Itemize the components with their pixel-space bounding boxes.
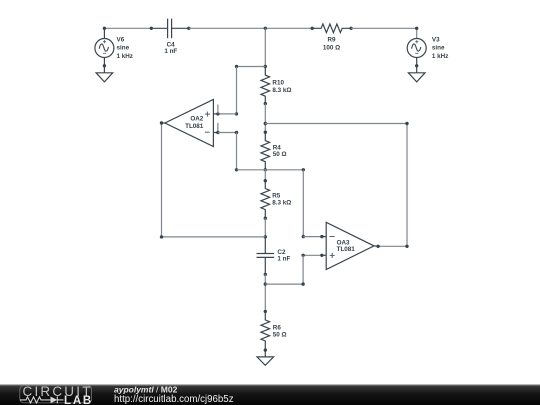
ground (V3): [408, 66, 425, 82]
wire top rail left (V6 to C4): [104, 27, 151, 29]
node C2 bottom terminal: [264, 273, 267, 276]
node R6 bottom terminal: [264, 348, 267, 351]
wire branch R10 top to left: [237, 66, 266, 68]
logo CIRCUIT text: [23, 384, 93, 399]
node C4 right terminal: [187, 27, 190, 30]
svg-text:LAB: LAB: [64, 395, 93, 405]
label C4 value: [164, 42, 177, 56]
wire top rail middle (C4 to R9): [189, 27, 312, 29]
wire main column R10 to R4: [264, 104, 266, 133]
wire OA3 plus pin to corner: [303, 254, 322, 256]
svg-text:OA2TL081: OA2TL081: [185, 116, 204, 130]
logo LAB text: [64, 395, 93, 405]
wire down to OA3 minus level: [302, 170, 304, 237]
logo diode: [51, 397, 64, 404]
node left corner R4 bottom: [235, 168, 238, 171]
node C2 top junction: [264, 235, 267, 238]
node OA3 output pin: [376, 245, 379, 248]
node C4 left terminal: [150, 27, 153, 30]
footer url text: [114, 394, 234, 405]
svg-text:R450 Ω: R450 Ω: [273, 144, 287, 158]
label R6 value: [273, 325, 287, 339]
svg-text:R9100 Ω: R9100 Ω: [323, 37, 340, 52]
wire to OA3 minus pin: [303, 236, 322, 238]
node feedback junction: [264, 122, 267, 125]
svg-text:OA3TL081: OA3TL081: [337, 240, 356, 254]
node OA2 plus corner: [235, 112, 238, 115]
svg-text:R58.3 kΩ: R58.3 kΩ: [272, 192, 291, 206]
footer title text: [114, 385, 178, 395]
wire top rail right (R9 to V3): [351, 28, 417, 38]
wire R4 bottom horizontal: [237, 169, 304, 171]
wire main column R5 to C2: [264, 218, 266, 237]
label OA2: [185, 116, 204, 130]
svg-text:V3sine1 kHz: V3sine1 kHz: [432, 37, 448, 60]
op-amp OA3: [322, 222, 378, 269]
wire stub above OA2 minus pin: [217, 123, 219, 133]
node R4 bottom junction: [264, 168, 267, 171]
svg-text:http://circuitlab.com/cj96b5z: http://circuitlab.com/cj96b5z: [114, 394, 234, 405]
logo frame: [20, 386, 92, 403]
label C2 value: [277, 249, 290, 263]
node R10 bottom terminal: [264, 102, 267, 105]
ground (R6): [257, 350, 274, 365]
capacitor C4: [151, 19, 189, 39]
node OA2 plus pin: [216, 112, 219, 115]
wire main column top segment: [264, 28, 266, 66]
node R5 bottom terminal: [264, 217, 267, 220]
node R9 left terminal: [311, 27, 314, 30]
label R5 value: [272, 192, 291, 206]
node OA3 plus corner: [301, 254, 304, 257]
wire OA3 plus down: [265, 255, 303, 284]
wire to OA2 plus pin: [218, 113, 237, 115]
node V3 bottom junction: [415, 64, 418, 67]
resistor R5: [261, 181, 270, 219]
node OA3 minus corner: [302, 235, 305, 238]
node OA3 plus bottom corner: [301, 282, 304, 285]
node OA3 plus pin: [320, 254, 323, 257]
wire OA2 output down: [162, 123, 266, 237]
svg-text:aypolymtl / M02: aypolymtl / M02: [114, 385, 178, 395]
label R9 value: [323, 37, 340, 52]
resistor R4: [261, 132, 270, 170]
node feedback bottom corner: [405, 245, 408, 248]
wire stub above OA2 plus pin: [217, 105, 219, 114]
resistor R10: [261, 67, 270, 104]
label R4 value: [273, 144, 287, 158]
label V3 value: [432, 37, 448, 60]
node right corner R4 bottom: [302, 168, 305, 171]
wire down to OA2 plus input: [236, 67, 238, 114]
label V6 value: [117, 37, 133, 60]
node R9 right terminal: [349, 27, 352, 30]
wire main column C2 to R6: [264, 274, 266, 311]
node V6 top junction: [103, 27, 106, 30]
wire OA2 minus to corner: [218, 132, 237, 134]
logo resistor zigzag: [20, 397, 51, 403]
label R10 value: [272, 79, 291, 94]
footer bar: [0, 385, 540, 405]
node R4 top terminal: [264, 131, 267, 134]
svg-text:C41 nF: C41 nF: [164, 42, 177, 56]
voltage source V3: [407, 39, 426, 66]
node V6 bottom junction: [103, 64, 106, 67]
node OA2 output corner: [160, 235, 163, 238]
node feedback top corner: [405, 122, 408, 125]
node OA2 minus pin: [216, 131, 219, 134]
node R6 top terminal: [264, 310, 267, 313]
ground (V6): [96, 66, 113, 82]
node R10 top junction: [264, 65, 267, 68]
resistor R6: [261, 311, 270, 350]
node OA3 minus pin: [320, 235, 323, 238]
label OA3: [337, 240, 356, 254]
svg-text:R650 Ω: R650 Ω: [273, 325, 287, 339]
voltage source V6: [95, 28, 114, 66]
capacitor C2: [257, 237, 275, 275]
node branch corner left top: [235, 65, 238, 68]
node OA2 output pin: [160, 121, 163, 124]
svg-text:C21 nF: C21 nF: [277, 249, 290, 263]
node V3 top corner: [415, 27, 418, 30]
node OA2 minus corner: [235, 131, 238, 134]
node R5 top terminal: [264, 179, 267, 182]
wire main column R4 to R5: [264, 170, 266, 181]
wire down to R4 bottom node: [236, 133, 238, 170]
node main column top junction: [264, 27, 267, 30]
op-amp OA2: [161, 99, 218, 146]
svg-text:V6sine1 kHz: V6sine1 kHz: [117, 37, 133, 60]
wire feedback OA3 output to R10 bottom: [265, 124, 407, 247]
svg-text:R108.3 kΩ: R108.3 kΩ: [272, 79, 291, 94]
node OA3 plus branch junction: [264, 282, 267, 285]
resistor R9: [312, 24, 351, 33]
